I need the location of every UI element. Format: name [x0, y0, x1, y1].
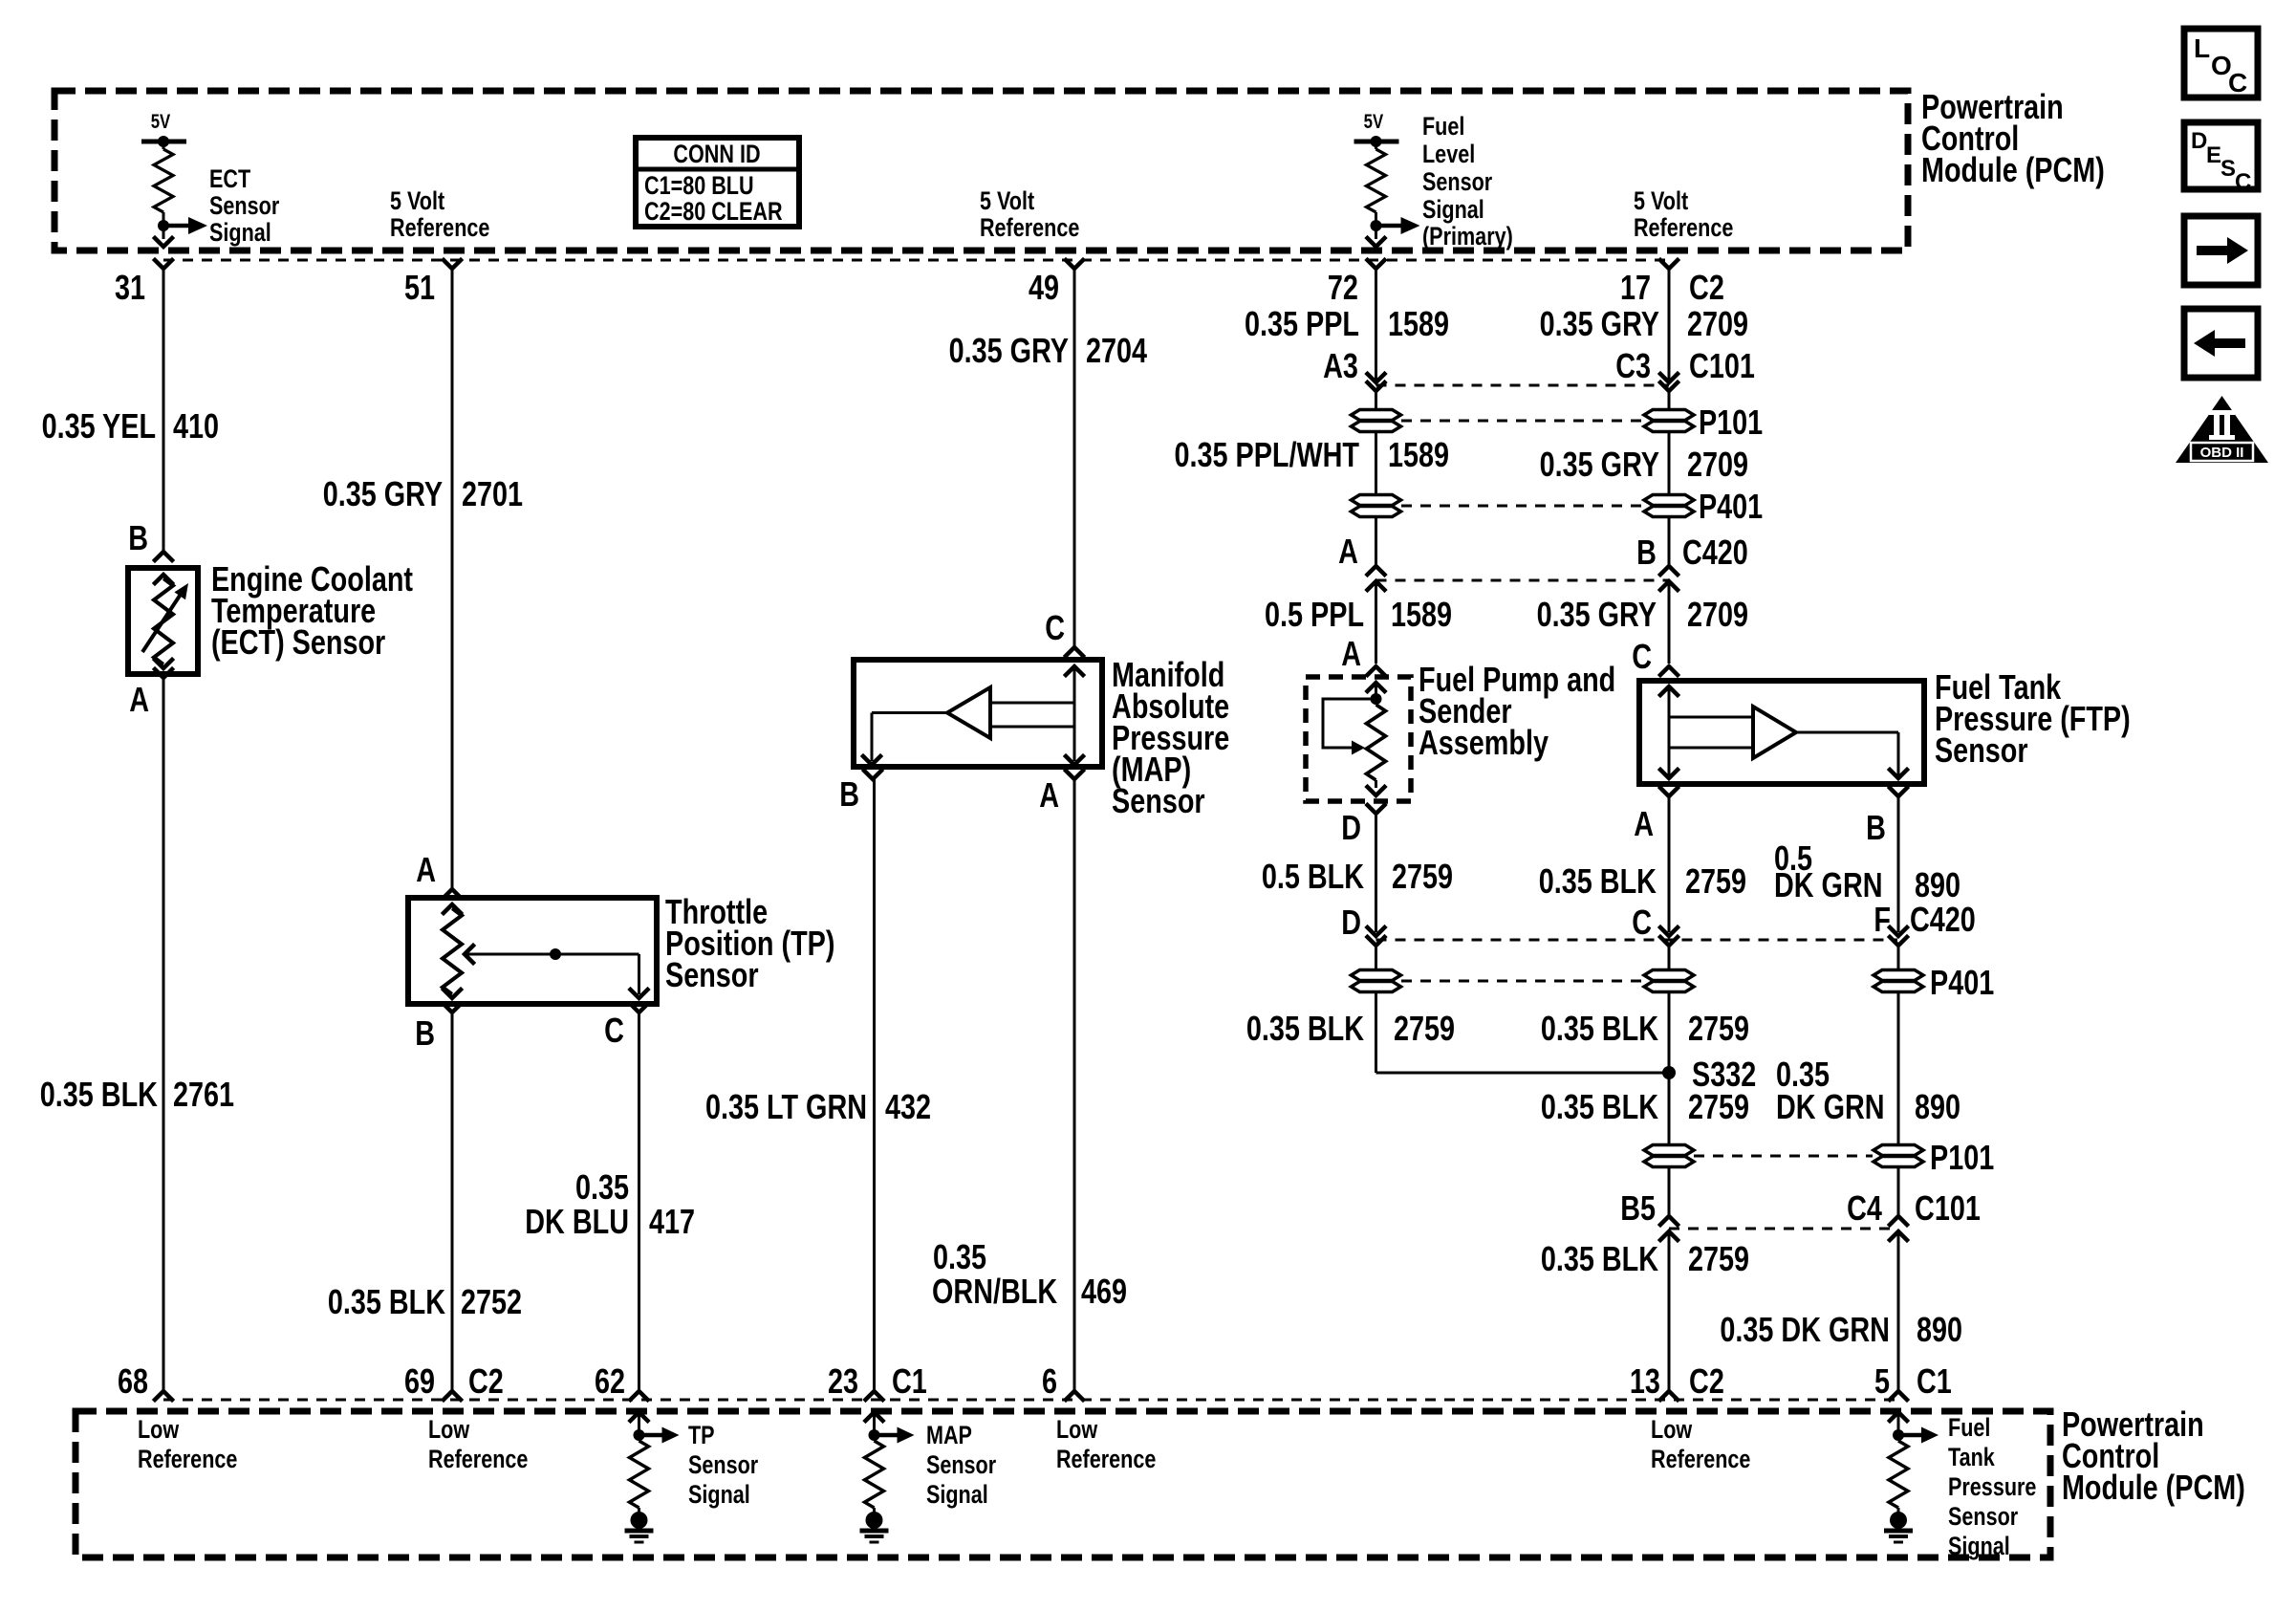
5V supply fuel level — [1354, 140, 1399, 144]
splice S332 — [1662, 1066, 1676, 1079]
PCM bottom box (Powertrain Control Module) — [76, 1411, 2050, 1557]
svg-text:2759: 2759 — [1392, 857, 1453, 896]
svg-text:68: 68 — [118, 1361, 148, 1401]
node C3 crossing C101 — [1660, 374, 1678, 382]
svg-text:Module (PCM): Module (PCM) — [1921, 150, 2105, 189]
pin 68 connector — [155, 1391, 172, 1400]
svg-text:Signal: Signal — [1422, 196, 1484, 225]
svg-text:C1=80 BLU: C1=80 BLU — [644, 172, 754, 201]
pin 5 connector — [1890, 1391, 1907, 1400]
node D crossing C420 — [1368, 927, 1385, 936]
svg-text:C3: C3 — [1615, 346, 1651, 385]
svg-text:2752: 2752 — [461, 1282, 522, 1321]
svg-text:ECT: ECT — [209, 165, 250, 194]
svg-text:B: B — [1866, 808, 1886, 847]
svg-text:Sensor: Sensor — [926, 1451, 997, 1480]
svg-text:TP: TP — [688, 1422, 715, 1450]
svg-text:A3: A3 — [1323, 346, 1358, 385]
pin 6 connector — [1066, 1391, 1083, 1400]
node C4 crossing C101 — [1897, 1166, 1900, 1216]
svg-text:C: C — [604, 1011, 624, 1050]
svg-text:0.35 GRY: 0.35 GRY — [949, 331, 1070, 370]
svg-text:MAP: MAP — [926, 1422, 972, 1450]
PCM top box (Powertrain Control Module) — [54, 91, 1908, 250]
svg-text:Sensor: Sensor — [1948, 1503, 2019, 1532]
pin C FTP sensor — [1660, 666, 1678, 675]
resistor ECT pull-up in PCM — [162, 142, 165, 149]
icon OBD II triangle — [2176, 396, 2268, 463]
svg-text:Level: Level — [1422, 141, 1475, 169]
svg-text:1589: 1589 — [1391, 595, 1452, 634]
node B crossing C420 — [1668, 516, 1671, 566]
svg-text:C420: C420 — [1682, 533, 1748, 572]
pin 72 connector — [1368, 260, 1385, 269]
svg-text:E: E — [2206, 142, 2221, 168]
svg-text:2701: 2701 — [462, 474, 523, 513]
Fuel Tank Pressure (FTP) Sensor — [1639, 681, 1924, 784]
node C crossing C420 — [1660, 927, 1678, 936]
svg-text:5V: 5V — [151, 111, 171, 133]
svg-text:2704: 2704 — [1086, 331, 1147, 370]
svg-text:C2: C2 — [1689, 1361, 1724, 1401]
svg-text:2759: 2759 — [1685, 861, 1746, 901]
svg-text:62: 62 — [595, 1361, 625, 1401]
svg-text:A: A — [1634, 804, 1654, 843]
wire 0.35 BLK 2752 — [451, 1012, 454, 1391]
connector P401 right — [1644, 495, 1694, 506]
svg-text:DK GRN: DK GRN — [1776, 1087, 1885, 1126]
svg-text:0.35 PPL: 0.35 PPL — [1245, 304, 1359, 343]
pin D fuel pump — [1368, 805, 1385, 814]
wire 0.35 GRY 2709 — [1668, 269, 1671, 382]
svg-text:2759: 2759 — [1688, 1087, 1749, 1126]
wire 0.35 GRY 2701 — [451, 269, 454, 889]
svg-text:C420: C420 — [1910, 900, 1976, 939]
svg-text:Low: Low — [138, 1416, 180, 1445]
pin 17 connector — [1660, 260, 1678, 269]
node A crossing C420 — [1375, 516, 1377, 566]
svg-text:1589: 1589 — [1388, 304, 1449, 343]
svg-text:432: 432 — [885, 1087, 931, 1126]
svg-text:Sensor: Sensor — [1112, 781, 1205, 820]
svg-text:0.35 BLK: 0.35 BLK — [1246, 1009, 1365, 1048]
svg-text:23: 23 — [828, 1361, 858, 1401]
wire 0.35 DK GRN 890 bottom — [1897, 1231, 1900, 1391]
svg-text:0.35 BLK: 0.35 BLK — [1541, 1239, 1659, 1278]
pin C MAP sensor — [1066, 647, 1083, 656]
Engine Coolant Temperature (ECT) Sensor — [128, 568, 198, 674]
svg-text:Sensor: Sensor — [209, 192, 280, 221]
svg-text:890: 890 — [1915, 865, 1960, 904]
svg-text:D: D — [1341, 808, 1361, 847]
svg-text:0.35 BLK: 0.35 BLK — [1541, 1009, 1659, 1048]
svg-text:B: B — [1636, 533, 1657, 572]
svg-text:6: 6 — [1042, 1361, 1057, 1401]
svg-text:Reference: Reference — [1634, 214, 1733, 243]
svg-text:0.35 PPL/WHT: 0.35 PPL/WHT — [1174, 435, 1359, 474]
svg-text:OBD II: OBD II — [2200, 445, 2244, 461]
connector P401 row2 left — [1352, 970, 1401, 981]
svg-text:Reference: Reference — [1651, 1446, 1750, 1474]
pin 69 connector — [444, 1391, 461, 1400]
wire 0.5 DK GRN 890 — [1897, 796, 1900, 932]
wire 0.35 GRY 2709 segment2 — [1668, 431, 1671, 495]
svg-text:Sensor: Sensor — [1935, 730, 2028, 770]
svg-text:Low: Low — [1651, 1416, 1693, 1445]
icon arrow left — [2184, 309, 2258, 378]
icon arrow right — [2184, 216, 2258, 285]
svg-text:0.35 BLK: 0.35 BLK — [1539, 861, 1657, 901]
svg-text:F: F — [1874, 900, 1891, 939]
CONN ID table — [636, 138, 799, 227]
Manifold Absolute Pressure (MAP) Sensor — [854, 660, 1102, 767]
svg-text:Fuel: Fuel — [1948, 1414, 1990, 1443]
svg-text:469: 469 — [1081, 1272, 1127, 1311]
svg-text:2709: 2709 — [1687, 595, 1748, 634]
svg-text:0.35 BLK: 0.35 BLK — [328, 1282, 446, 1321]
wire 0.35 LT GRN 432 — [873, 779, 876, 1391]
node F crossing C420 — [1890, 927, 1907, 936]
svg-text:5 Volt: 5 Volt — [1634, 187, 1688, 216]
svg-text:A: A — [1341, 634, 1361, 673]
svg-text:A: A — [1338, 532, 1358, 571]
svg-text:L: L — [2194, 33, 2210, 63]
svg-text:410: 410 — [173, 406, 219, 446]
pin 51 connector — [444, 260, 461, 269]
svg-text:890: 890 — [1917, 1310, 1962, 1349]
svg-text:2759: 2759 — [1394, 1009, 1455, 1048]
svg-text:C1: C1 — [1917, 1361, 1952, 1401]
svg-text:Signal: Signal — [926, 1481, 988, 1510]
wire 0.35 DK GRN 890 to P101 — [1897, 991, 1900, 1145]
ECT Sensor Signal arrow — [163, 224, 188, 229]
svg-text:C: C — [1045, 608, 1065, 647]
svg-text:C: C — [1632, 903, 1652, 942]
svg-text:(ECT) Sensor: (ECT) Sensor — [211, 622, 386, 662]
svg-text:Sensor: Sensor — [1422, 168, 1493, 197]
svg-text:0.35 BLK: 0.35 BLK — [1541, 1087, 1659, 1126]
svg-text:Assembly: Assembly — [1419, 723, 1549, 762]
wire 0.35 PPL 1589 — [1375, 269, 1377, 382]
svg-text:Reference: Reference — [1056, 1446, 1156, 1474]
wire 0.35 BLK 2761 — [162, 678, 165, 1391]
svg-text:2709: 2709 — [1687, 445, 1748, 484]
svg-text:C2: C2 — [1689, 268, 1724, 307]
svg-text:Low: Low — [1056, 1416, 1098, 1445]
svg-text:0.35: 0.35 — [575, 1167, 629, 1207]
node B5 crossing C101 — [1668, 1166, 1671, 1216]
wire 0.35 YEL 410 — [162, 269, 165, 552]
PCM connector face dashed line (bottom) — [163, 1399, 1897, 1402]
node A3 crossing C101 — [1368, 374, 1385, 382]
svg-text:B: B — [128, 518, 148, 557]
svg-text:CONN ID: CONN ID — [673, 141, 760, 169]
pin A MAP sensor — [1066, 771, 1083, 779]
pin 23 connector — [866, 1391, 883, 1400]
svg-text:2761: 2761 — [173, 1075, 234, 1114]
pin B ECT sensor — [155, 552, 172, 560]
svg-text:Signal: Signal — [1948, 1533, 2010, 1561]
svg-text:51: 51 — [404, 268, 435, 307]
svg-text:5V: 5V — [1364, 111, 1384, 133]
svg-text:C: C — [2228, 68, 2247, 98]
svg-text:Reference: Reference — [138, 1446, 237, 1474]
svg-text:72: 72 — [1328, 268, 1358, 307]
svg-text:Reference: Reference — [428, 1446, 528, 1474]
wire 0.35 PPL/WHT 1589 — [1375, 431, 1377, 495]
svg-text:C101: C101 — [1689, 346, 1755, 385]
connector P401 row2 right — [1874, 970, 1923, 981]
icon LOC — [2184, 29, 2258, 98]
svg-text:49: 49 — [1029, 268, 1059, 307]
pin A FTP sensor — [1660, 788, 1678, 796]
connector P101 row2 left — [1644, 1145, 1694, 1156]
svg-text:A: A — [416, 850, 436, 889]
svg-text:D: D — [1341, 903, 1361, 942]
op-amp FTP — [1753, 707, 1796, 758]
svg-text:0.35 GRY: 0.35 GRY — [1540, 445, 1660, 484]
svg-text:Reference: Reference — [390, 214, 489, 243]
connector P101 right — [1644, 410, 1694, 421]
svg-text:0.5 BLK: 0.5 BLK — [1262, 857, 1365, 896]
pin 49 connector — [1066, 260, 1083, 269]
fuel level sender variable resistor — [1323, 699, 1376, 748]
MAP Sensor Signal circuit in PCM — [866, 1412, 883, 1421]
svg-text:C2=80 CLEAR: C2=80 CLEAR — [644, 198, 783, 227]
svg-text:0.5 PPL: 0.5 PPL — [1265, 595, 1364, 634]
svg-text:DK GRN: DK GRN — [1774, 865, 1883, 904]
svg-text:Signal: Signal — [688, 1481, 750, 1510]
Fuel Level Sensor Signal arrow — [1376, 224, 1401, 229]
pin A fuel pump — [1368, 666, 1385, 675]
svg-text:69: 69 — [404, 1361, 435, 1401]
svg-text:2759: 2759 — [1688, 1009, 1749, 1048]
5V supply ECT — [141, 140, 186, 144]
svg-text:0.35 GRY: 0.35 GRY — [323, 474, 444, 513]
Fuel Pump and Sender Assembly — [1306, 677, 1411, 801]
svg-text:Reference: Reference — [980, 214, 1079, 243]
svg-text:P101: P101 — [1930, 1138, 1994, 1177]
TP wiper — [465, 946, 473, 963]
svg-text:Pressure: Pressure — [1948, 1473, 2036, 1502]
svg-text:5: 5 — [1874, 1361, 1890, 1401]
wire 0.35 BLK 2759 below FTP — [1668, 796, 1671, 932]
connector P101 left — [1352, 410, 1401, 421]
svg-text:0.35 YEL: 0.35 YEL — [42, 406, 156, 446]
svg-text:17: 17 — [1620, 268, 1651, 307]
svg-text:Fuel: Fuel — [1422, 113, 1464, 142]
Fuel Tank Pressure Sensor Signal circuit in PCM — [1890, 1412, 1907, 1421]
svg-text:0.35 GRY: 0.35 GRY — [1537, 595, 1657, 634]
svg-text:Sensor: Sensor — [665, 955, 759, 994]
resistor fuel level pull-up in PCM — [1375, 142, 1377, 149]
svg-text:B: B — [415, 1013, 435, 1053]
pin B MAP sensor — [864, 771, 881, 779]
svg-text:A: A — [1039, 775, 1059, 815]
svg-text:P401: P401 — [1930, 963, 1994, 1002]
svg-text:5 Volt: 5 Volt — [980, 187, 1034, 216]
svg-text:C101: C101 — [1915, 1188, 1981, 1228]
pin B FTP sensor — [1890, 788, 1907, 796]
svg-text:Low: Low — [428, 1416, 470, 1445]
Throttle Position (TP) Sensor — [408, 898, 657, 1004]
connector P401 row2 mid — [1644, 970, 1694, 981]
wire 0.35 BLK 2759 to S332 — [1375, 991, 1377, 1073]
svg-text:B: B — [839, 774, 859, 814]
svg-text:P401: P401 — [1699, 487, 1763, 526]
svg-text:DK BLU: DK BLU — [525, 1202, 629, 1241]
svg-text:31: 31 — [115, 268, 145, 307]
pin C TP sensor — [631, 1004, 648, 1012]
svg-text:Tank: Tank — [1948, 1444, 1995, 1472]
splice S332 wire — [1376, 1072, 1670, 1075]
svg-text:417: 417 — [649, 1202, 695, 1241]
svg-text:0.35 GRY: 0.35 GRY — [1540, 304, 1660, 343]
svg-text:0.35 LT GRN: 0.35 LT GRN — [705, 1087, 867, 1126]
svg-text:C: C — [2235, 169, 2251, 195]
wire to splice S332 — [1668, 991, 1671, 1145]
svg-text:C4: C4 — [1847, 1188, 1882, 1228]
op-amp MAP — [947, 687, 990, 738]
svg-text:Signal: Signal — [209, 219, 271, 248]
connector P401 left — [1352, 495, 1401, 506]
wire 0.5 BLK 2759 — [1375, 814, 1377, 932]
pin B TP sensor — [444, 1004, 461, 1012]
svg-text:2709: 2709 — [1687, 304, 1748, 343]
pin 62 connector — [631, 1391, 648, 1400]
pin 13 connector — [1660, 1391, 1678, 1400]
svg-text:Sensor: Sensor — [688, 1451, 759, 1480]
svg-text:0.35 BLK: 0.35 BLK — [40, 1075, 159, 1114]
svg-text:P101: P101 — [1699, 403, 1763, 442]
svg-text:S: S — [2220, 156, 2236, 182]
svg-text:1589: 1589 — [1388, 435, 1449, 474]
TP Sensor Signal circuit in PCM — [631, 1412, 648, 1421]
wire 0.35 GRY 2704 — [1073, 269, 1076, 647]
svg-text:B5: B5 — [1620, 1188, 1656, 1228]
svg-text:2759: 2759 — [1688, 1239, 1749, 1278]
svg-text:C1: C1 — [892, 1361, 927, 1401]
svg-text:D: D — [2191, 128, 2207, 154]
svg-text:5 Volt: 5 Volt — [390, 187, 444, 216]
svg-text:13: 13 — [1630, 1361, 1660, 1401]
svg-text:C: C — [1632, 637, 1652, 676]
pin A ECT sensor — [155, 669, 172, 678]
connector P101 row2 right — [1874, 1145, 1923, 1156]
svg-text:0.35 DK GRN: 0.35 DK GRN — [1720, 1310, 1890, 1349]
svg-text:890: 890 — [1915, 1087, 1960, 1126]
svg-text:A: A — [129, 680, 149, 719]
pin 31 connector — [155, 260, 172, 269]
svg-text:0.35: 0.35 — [933, 1237, 986, 1276]
svg-text:Module (PCM): Module (PCM) — [2062, 1468, 2245, 1507]
svg-text:ORN/BLK: ORN/BLK — [932, 1272, 1058, 1311]
icon DESC — [2184, 122, 2258, 189]
PCM connector face dashed line (top) — [163, 259, 1669, 262]
svg-text:C2: C2 — [468, 1361, 504, 1401]
pin A TP sensor — [444, 889, 461, 898]
wire 0.35 BLK 2759 bottom — [1668, 1231, 1671, 1391]
svg-text:(Primary): (Primary) — [1422, 223, 1513, 251]
wire 0.35 ORN/BLK 469 — [1073, 779, 1076, 1391]
wire 0.35 DK BLU 417 — [638, 1012, 640, 1391]
